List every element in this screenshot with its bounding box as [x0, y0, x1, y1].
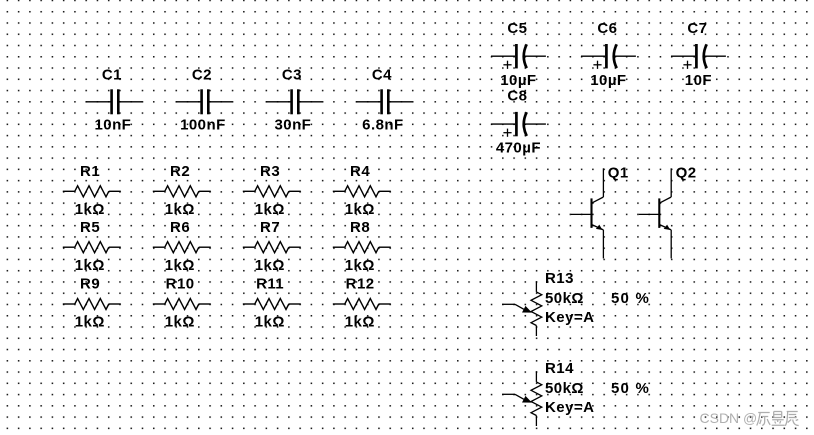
wire R8 left lead — [333, 246, 345, 248]
polarity plus sign of C5 — [503, 61, 511, 69]
svg-text:C3: C3 — [282, 66, 302, 83]
svg-text:1kΩ: 1kΩ — [75, 314, 105, 331]
plate positive (straight) of C6 — [605, 44, 608, 68]
svg-text:R1: R1 — [80, 163, 100, 180]
svg-text:50kΩ: 50kΩ — [545, 290, 584, 307]
wire C2 right lead — [208, 101, 232, 103]
wire C2 left lead — [176, 101, 201, 103]
wire R11 left lead — [243, 303, 255, 305]
plate right of C4 — [387, 89, 390, 114]
plate right of C2 — [207, 89, 210, 114]
plate right of C1 — [117, 89, 120, 114]
plate negative (curved) of C8 — [524, 112, 527, 136]
svg-text:1kΩ: 1kΩ — [255, 257, 285, 274]
zigzag body of R8 — [345, 242, 379, 253]
polarity plus sign of C8 — [503, 129, 511, 137]
plate negative (curved) of C7 — [704, 44, 707, 68]
wire R6 right lead — [199, 246, 211, 248]
wire R3 left lead — [243, 190, 255, 192]
wire C4 left lead — [356, 101, 381, 103]
emitter diagonal of Q1 — [592, 225, 604, 230]
plate positive (straight) of C8 — [515, 112, 518, 136]
zigzag body of R14 — [531, 382, 542, 416]
svg-text:470µF: 470µF — [496, 140, 541, 157]
capacitor C4 — [356, 66, 412, 133]
plate left of C3 — [290, 89, 293, 114]
resistor R12 — [333, 276, 391, 331]
plate negative (curved) of C5 — [524, 44, 527, 68]
svg-text:100nF: 100nF — [180, 117, 226, 134]
plate left of C1 — [110, 89, 113, 114]
base bar of Q1 — [590, 198, 592, 228]
plate right of C3 — [297, 89, 300, 114]
svg-text:1kΩ: 1kΩ — [165, 314, 195, 331]
svg-text:Q1: Q1 — [608, 164, 629, 181]
capacitor C1 — [86, 66, 142, 133]
wire R13 bottom lead — [535, 326, 537, 337]
svg-text:50 %: 50 % — [611, 380, 650, 397]
zigzag body of R6 — [165, 242, 199, 253]
capacitor C8 (polarized) — [491, 88, 546, 157]
svg-text:R6: R6 — [170, 219, 190, 236]
zigzag body of R5 — [75, 242, 109, 253]
wire wiper lead of R14 — [502, 393, 515, 395]
zigzag body of R11 — [255, 299, 289, 310]
svg-text:50kΩ: 50kΩ — [545, 380, 584, 397]
svg-text:C6: C6 — [597, 20, 617, 37]
zigzag body of R13 — [531, 292, 542, 326]
polarity plus sign of C7 — [683, 61, 691, 69]
svg-text:30nF: 30nF — [274, 117, 311, 134]
zigzag body of R3 — [255, 186, 289, 197]
wire C3 left lead — [266, 101, 291, 103]
plate negative (curved) of C6 — [614, 44, 617, 68]
wire R5 right lead — [109, 246, 121, 248]
wire C4 right lead — [388, 101, 412, 103]
wire C7 right lead — [704, 55, 726, 57]
wire wiper lead of R13 — [502, 303, 515, 305]
wiper arrow of R13 — [522, 306, 532, 313]
svg-text:1kΩ: 1kΩ — [255, 314, 285, 331]
svg-text:R5: R5 — [80, 219, 100, 236]
wire R14 top lead — [535, 371, 537, 382]
zigzag body of R7 — [255, 242, 289, 253]
resistor R4 — [333, 163, 391, 218]
svg-text:R11: R11 — [256, 276, 284, 293]
wire R6 left lead — [153, 246, 165, 248]
resistor R2 — [153, 163, 211, 218]
wire R5 left lead — [63, 246, 75, 248]
wire C8 left lead — [491, 123, 515, 125]
svg-text:C7: C7 — [687, 20, 707, 37]
wire collector of Q1 — [602, 168, 604, 197]
watermark CSDN @厉昱辰 — [700, 410, 799, 426]
wire R7 right lead — [289, 246, 301, 248]
svg-text:R10: R10 — [166, 276, 195, 293]
wire R11 right lead — [289, 303, 301, 305]
svg-text:10F: 10F — [685, 72, 712, 89]
wire R2 left lead — [153, 190, 165, 192]
wire C5 left lead — [491, 55, 515, 57]
plate left of C4 — [380, 89, 383, 114]
wire base lead of Q2 — [639, 213, 660, 215]
svg-text:R12: R12 — [346, 276, 375, 293]
svg-text:10µF: 10µF — [590, 72, 626, 89]
svg-text:R2: R2 — [170, 163, 190, 180]
transistor Q2 (NPN) — [639, 164, 697, 258]
transistor Q1 (NPN) — [571, 164, 629, 258]
svg-text:C8: C8 — [507, 88, 527, 105]
resistor R6 — [153, 219, 211, 274]
svg-text:Q2: Q2 — [676, 164, 697, 181]
potentiometer R13 — [502, 270, 650, 336]
svg-text:C5: C5 — [507, 20, 527, 37]
wire R4 right lead — [379, 190, 391, 192]
svg-text:R8: R8 — [350, 219, 370, 236]
wire R9 right lead — [109, 303, 121, 305]
wire R1 right lead — [109, 190, 121, 192]
wire R13 top lead — [535, 281, 537, 292]
polarity plus sign of C6 — [593, 61, 601, 69]
svg-text:R9: R9 — [80, 276, 100, 293]
zigzag body of R2 — [165, 186, 199, 197]
capacitor C3 — [266, 66, 322, 133]
resistor R8 — [333, 219, 391, 274]
wire C8 right lead — [524, 123, 546, 125]
collector diagonal of Q2 — [659, 197, 671, 203]
svg-text:6.8nF: 6.8nF — [362, 117, 403, 134]
wire C1 left lead — [86, 101, 111, 103]
svg-text:1kΩ: 1kΩ — [345, 314, 375, 331]
resistor R5 — [63, 219, 121, 274]
potentiometer R14 — [502, 360, 650, 426]
wire R4 left lead — [333, 190, 345, 192]
wire emitter of Q1 — [602, 230, 604, 259]
svg-text:R14: R14 — [545, 360, 574, 377]
collector diagonal of Q1 — [592, 197, 604, 203]
wire C6 right lead — [614, 55, 636, 57]
zigzag body of R10 — [165, 299, 199, 310]
wire R2 right lead — [199, 190, 211, 192]
wire C5 right lead — [524, 55, 546, 57]
emitter diagonal of Q2 — [659, 225, 671, 230]
svg-text:1kΩ: 1kΩ — [75, 201, 105, 218]
wire collector of Q2 — [670, 168, 672, 197]
emitter arrow of Q1 — [596, 225, 603, 230]
wire R12 left lead — [333, 303, 345, 305]
svg-text:50 %: 50 % — [611, 290, 650, 307]
plate left of C2 — [200, 89, 203, 114]
capacitor C7 (polarized) — [671, 20, 726, 89]
svg-text:10nF: 10nF — [94, 117, 131, 134]
capacitor C6 (polarized) — [581, 20, 636, 89]
plate positive (straight) of C7 — [695, 44, 698, 68]
wire R8 right lead — [379, 246, 391, 248]
wire R14 bottom lead — [535, 416, 537, 427]
zigzag body of R9 — [75, 299, 109, 310]
zigzag body of R1 — [75, 186, 109, 197]
wire R10 left lead — [153, 303, 165, 305]
svg-text:Key=A: Key=A — [545, 309, 594, 326]
svg-text:1kΩ: 1kΩ — [345, 201, 375, 218]
wire R12 right lead — [379, 303, 391, 305]
svg-text:CSDN @: CSDN @ — [700, 410, 758, 426]
wire R1 left lead — [63, 190, 75, 192]
svg-text:10µF: 10µF — [500, 72, 536, 89]
wire C3 right lead — [298, 101, 322, 103]
resistor R10 — [153, 276, 211, 331]
wire C7 left lead — [671, 55, 695, 57]
svg-text:1kΩ: 1kΩ — [165, 257, 195, 274]
capacitor C2 — [176, 66, 232, 133]
emitter arrow of Q2 — [664, 225, 671, 230]
wire R7 left lead — [243, 246, 255, 248]
capacitor C5 (polarized) — [491, 20, 546, 89]
svg-text:1kΩ: 1kΩ — [165, 201, 195, 218]
resistor R11 — [243, 276, 301, 331]
resistor R7 — [243, 219, 301, 274]
svg-text:R13: R13 — [545, 270, 574, 287]
wire emitter of Q2 — [670, 230, 672, 259]
wiper arrow of R14 — [522, 396, 532, 403]
wire C1 right lead — [118, 101, 142, 103]
zigzag body of R4 — [345, 186, 379, 197]
plate positive (straight) of C5 — [515, 44, 518, 68]
svg-text:R7: R7 — [260, 219, 280, 236]
svg-text:1kΩ: 1kΩ — [345, 257, 375, 274]
wire R9 left lead — [63, 303, 75, 305]
wire R3 right lead — [289, 190, 301, 192]
resistor R1 — [63, 163, 121, 218]
wire R10 right lead — [199, 303, 211, 305]
resistor R9 — [63, 276, 121, 331]
svg-text:Key=A: Key=A — [545, 399, 594, 416]
svg-text:C2: C2 — [192, 66, 212, 83]
svg-text:C4: C4 — [372, 66, 392, 83]
svg-text:1kΩ: 1kΩ — [255, 201, 285, 218]
base bar of Q2 — [658, 198, 660, 228]
svg-text:1kΩ: 1kΩ — [75, 257, 105, 274]
svg-text:R4: R4 — [350, 163, 370, 180]
zigzag body of R12 — [345, 299, 379, 310]
svg-text:R3: R3 — [260, 163, 280, 180]
wire base lead of Q1 — [571, 213, 592, 215]
wire C6 left lead — [581, 55, 605, 57]
svg-text:C1: C1 — [102, 66, 122, 83]
resistor R3 — [243, 163, 301, 218]
